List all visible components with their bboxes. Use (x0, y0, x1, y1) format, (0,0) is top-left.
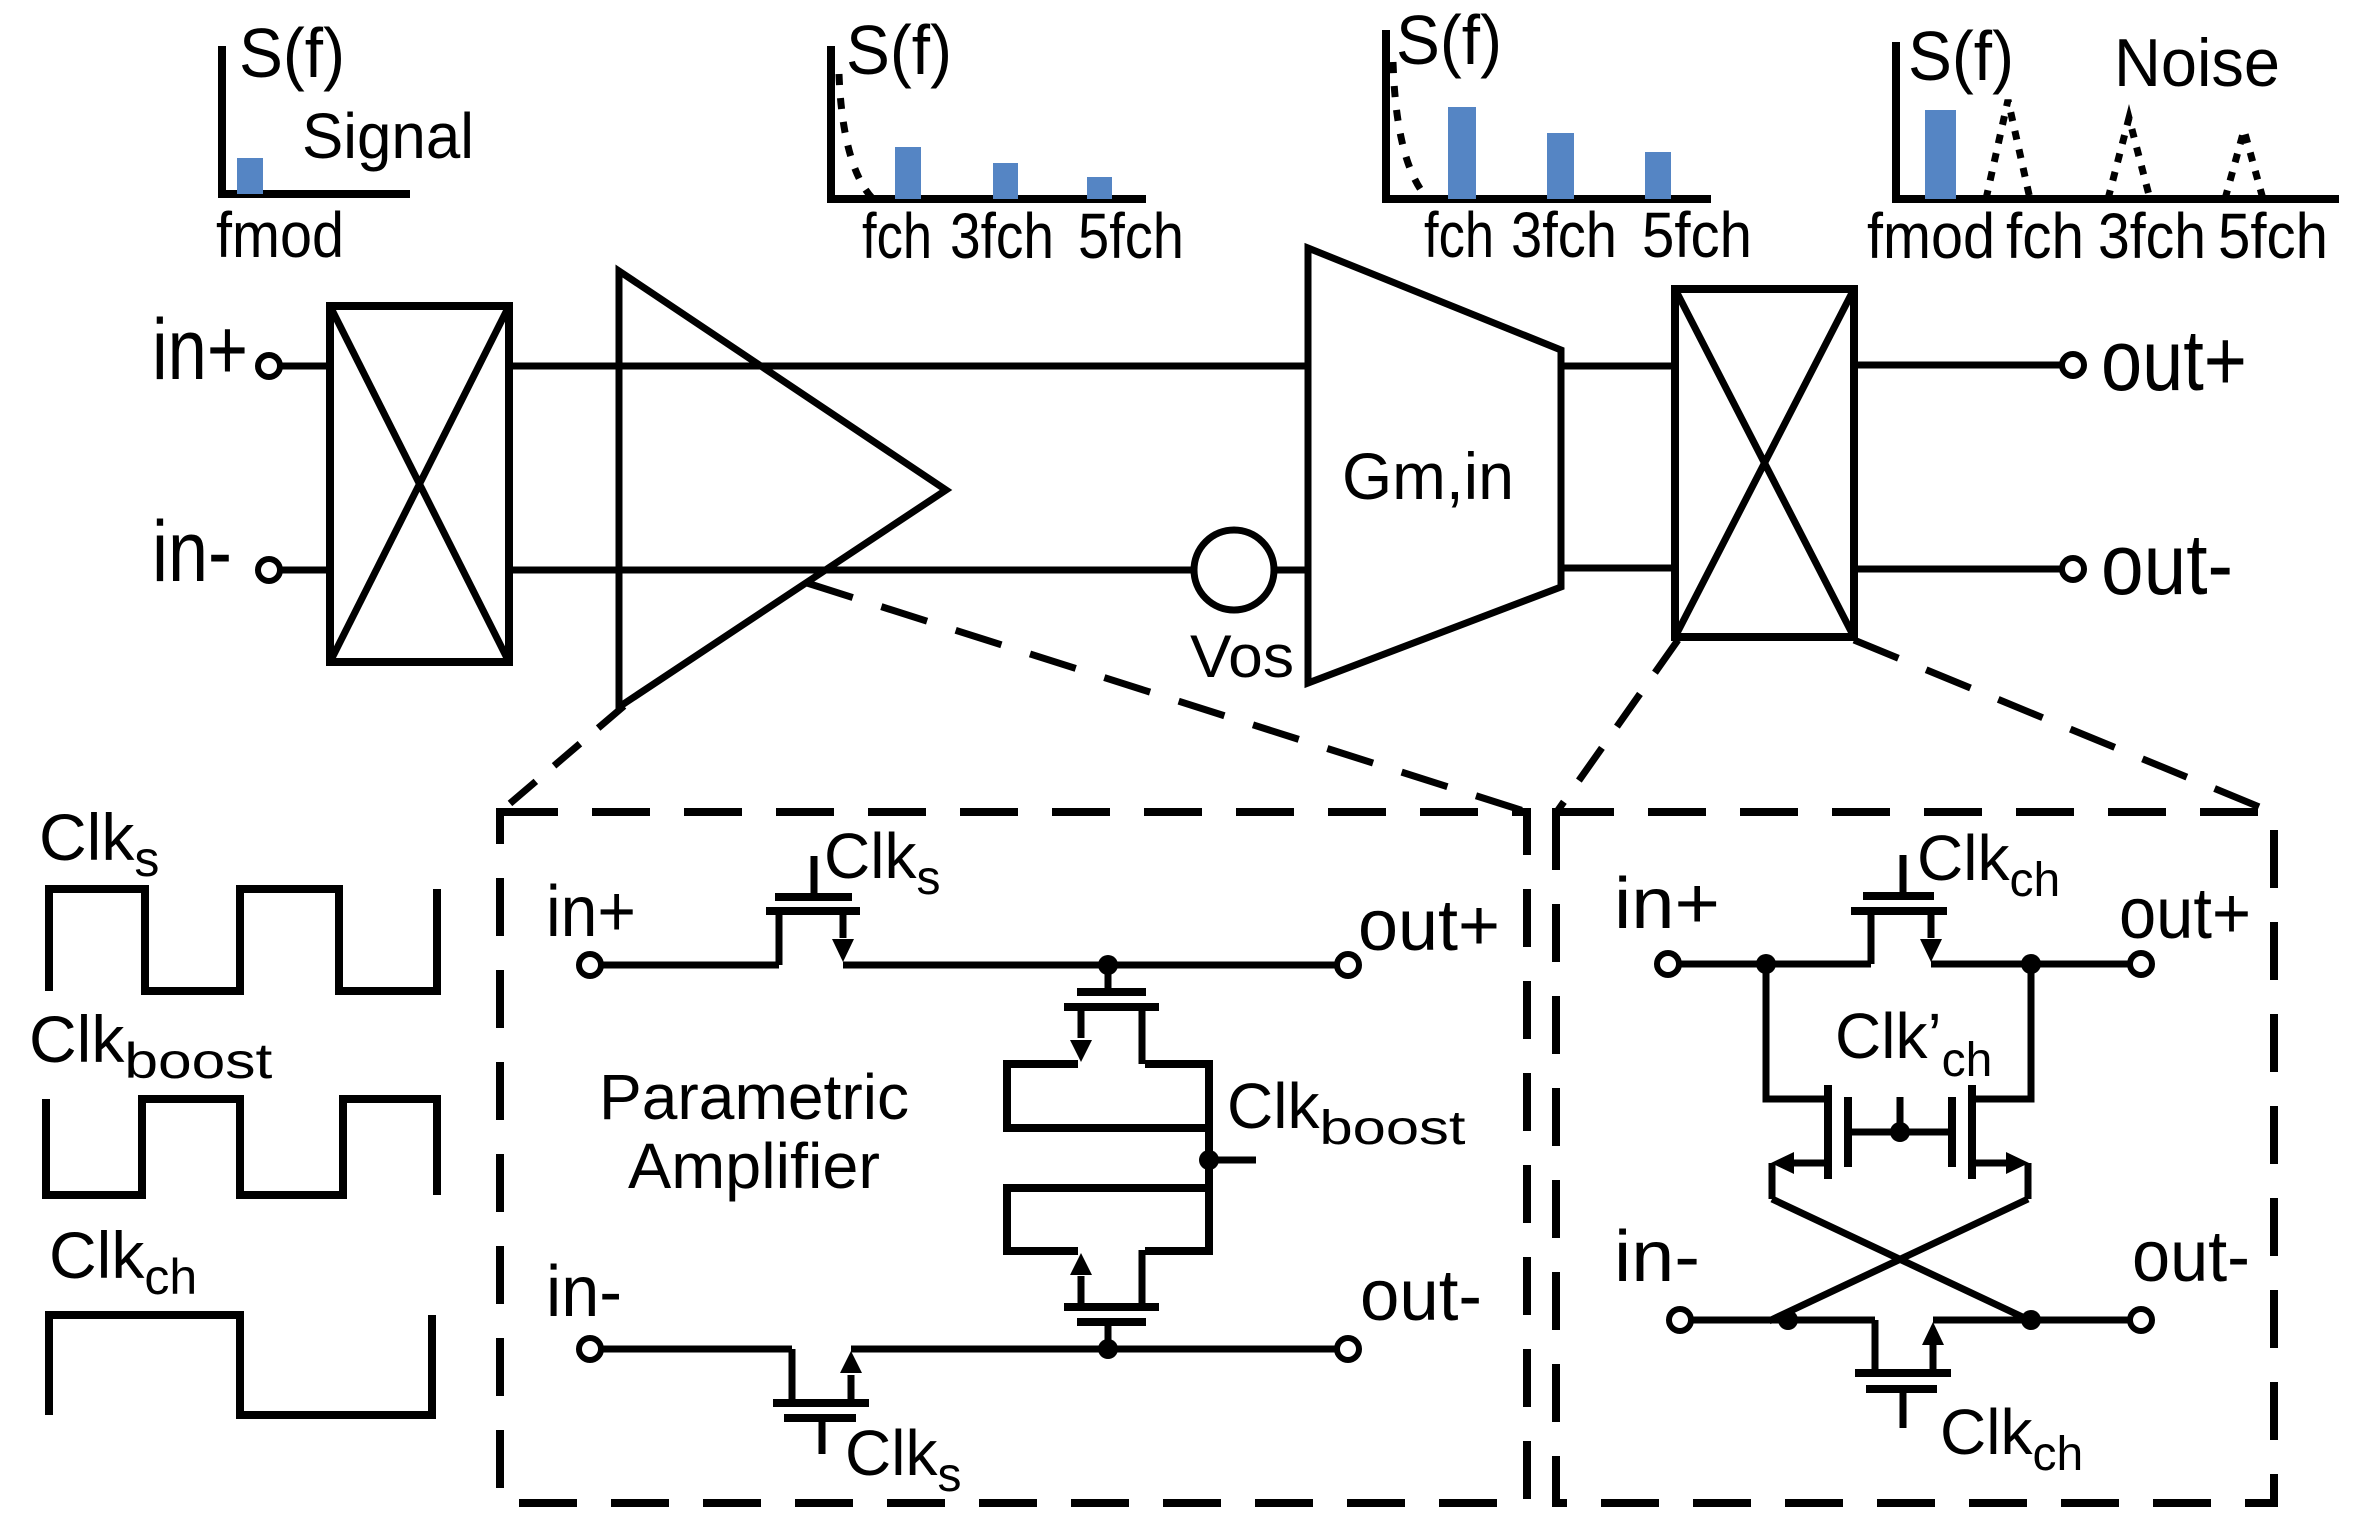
chopper detail dashed box (1556, 812, 2274, 1503)
switch M2 drain stub (848, 1375, 855, 1403)
wire bottom rail Gm to chopper2 (1561, 565, 1675, 572)
dashed leader chopper2 to chopper box left (1556, 640, 1678, 813)
svg-text:out-: out- (2132, 1217, 2250, 1297)
chopper CH2 X diagonal 1 (1675, 289, 1854, 637)
wire in- to switch M2 (601, 1346, 792, 1353)
switch M3 channel bar (1851, 907, 1947, 915)
svg-text:fch: fch (862, 200, 932, 272)
svg-text:in-: in- (546, 1252, 622, 1332)
svg-text:3fch: 3fch (950, 200, 1054, 272)
clock waveform Clkch (49, 1315, 432, 1415)
wire M1 to out+ (parametric box) (843, 962, 1337, 969)
terminal out- (chopper box) (2130, 1309, 2152, 1331)
terminal out+ (chopper box) (2130, 953, 2152, 975)
svg-text:3fch: 3fch (2098, 200, 2206, 272)
wire M2 to out- (parametric box) (851, 1346, 1337, 1353)
cross switch M4 source arrow (1771, 1152, 1794, 1174)
switch M1 drain arrow (832, 939, 854, 962)
amplifier A1 triangle (619, 271, 946, 707)
switch M6 gate lead (1900, 1391, 1907, 1428)
svg-text:Vos: Vos (1190, 623, 1294, 690)
junction dot out- branch (2021, 1310, 2041, 1330)
switch M1 channel bar (766, 907, 860, 915)
dashed leader chopper2 to chopper box right (1854, 640, 2274, 813)
chopper CH1 X diagonal 1 (330, 306, 509, 662)
svg-text:Parametric: Parametric (599, 1061, 909, 1133)
svg-text:fch: fch (1424, 199, 1494, 271)
shared gate node dot (1890, 1122, 1910, 1142)
junction dot bottom (parametric box) (1098, 1339, 1118, 1359)
varactor V1 gate bar (1077, 988, 1146, 996)
cross switch M5 channel bar (1968, 1085, 1976, 1179)
varactor V1 left stub arrow (1070, 1040, 1092, 1062)
spectrum plot 4 dashed noise peak at fch (1986, 100, 2030, 199)
junction dot in+ branch (1756, 954, 1776, 974)
switch M2 gate bar (784, 1414, 856, 1422)
svg-text:in-: in- (152, 504, 232, 600)
svg-text:out+: out+ (1358, 886, 1500, 966)
junction dot in- branch (1778, 1310, 1798, 1330)
spectrum plot 3 bar at fch (1448, 107, 1476, 199)
spectrum plot 2 axes (831, 46, 1146, 199)
terminal out+ (2062, 354, 2084, 376)
switch M1 drain stub (840, 911, 847, 938)
wire in+ to switch M3 (1679, 961, 1871, 968)
switch M6 drain stub (1930, 1343, 1937, 1373)
spectrum plot 2 bar at fch (895, 147, 921, 199)
switch M6 channel bar (1855, 1369, 1951, 1377)
varactor V2 channel bar (1064, 1303, 1159, 1311)
wire in- to switch M6 (1691, 1317, 1875, 1324)
switch M3 gate lead (1900, 855, 1907, 894)
spectrum plot 3 axes (1386, 30, 1711, 199)
switch M2 source step (789, 1349, 796, 1403)
terminal in+ (chopper box) (1657, 953, 1679, 975)
varactor V1 gate lead from top wire (1105, 965, 1112, 990)
clock waveform Clks (49, 889, 437, 991)
svg-text:3fch: 3fch (1511, 199, 1617, 271)
spectrum plot 3 bar at 3fch (1547, 133, 1574, 199)
wire chopper2 to out+ (1854, 362, 2062, 369)
varactor V2 right stub (1139, 1250, 1146, 1307)
svg-text:in+: in+ (1614, 864, 1720, 944)
cross switch M5 source arrow (2006, 1152, 2029, 1174)
terminal in- (chopper box) (1669, 1309, 1691, 1331)
dashed leader amplifier to parametric box right (807, 583, 1527, 812)
chopper CH2 X diagonal 2 (1675, 289, 1854, 637)
spectrum plot 4 axes (1896, 42, 2339, 199)
switch M3 drain arrow (1920, 939, 1942, 962)
svg-text:fmod: fmod (1867, 200, 1995, 272)
cross switch M4 gate bar (1844, 1097, 1852, 1167)
svg-text:Gm,in: Gm,in (1342, 439, 1514, 513)
cross switch M4 corner down (1769, 1163, 1776, 1199)
junction dot out+ branch (2021, 954, 2041, 974)
svg-text:S(f): S(f) (1908, 17, 2014, 95)
switch M1 source stub (776, 911, 783, 965)
switch M6 drain arrow (1922, 1322, 1944, 1345)
svg-text:out+: out+ (2119, 874, 2251, 954)
shared gate lead Clk'ch (1897, 1097, 1904, 1132)
switch M6 gate bar (1866, 1385, 1937, 1393)
svg-text:in+: in+ (152, 302, 248, 398)
varactor body right connector (1205, 1064, 1213, 1251)
transconductor Gm,in trapezoid (1308, 248, 1561, 683)
spectrum plot 2 dashed decay curve (839, 74, 873, 199)
cross switch M5 corner down (2025, 1163, 2032, 1199)
parametric amplifier dashed box (500, 812, 1527, 1503)
cross switch M5 source stub (1972, 1160, 2008, 1167)
spectrum plot 4 signal bar at fmod (1925, 110, 1956, 199)
svg-text:Noise: Noise (2114, 25, 2280, 101)
Clkboost contact stub (1209, 1157, 1256, 1164)
switch M3 source stub (1868, 911, 1875, 964)
switch M1 gate bar (775, 893, 852, 901)
cross wire M4 to out- junction (1772, 1199, 2031, 1321)
spectrum plot 2 bar at 3fch (993, 163, 1018, 199)
switch M1 gate lead (811, 856, 818, 895)
spectrum plot 3 bar at 5fch (1645, 152, 1671, 199)
spectrum plot 3 dashed decay curve (1393, 62, 1428, 199)
varactor V1 body plate (1007, 1064, 1209, 1128)
terminal in- (258, 559, 280, 581)
chopper CH1 X diagonal 2 (330, 306, 509, 662)
wire in+ branch down (1766, 964, 1828, 1099)
cross switch M5 gate bar (1948, 1097, 1956, 1167)
clock waveform Clkboost (46, 1099, 437, 1195)
svg-text:Amplifier: Amplifier (628, 1130, 880, 1202)
svg-text:5fch: 5fch (1642, 199, 1752, 271)
switch M6 source step (1872, 1320, 1879, 1373)
varactor V2 left stub (1078, 1276, 1085, 1307)
wire bottom rail chopper1 to Gm (512, 567, 1308, 574)
svg-text:out-: out- (2101, 517, 2233, 613)
cross wire M5 to in- junction (1769, 1199, 2028, 1321)
varactor V2 left stub arrow (1070, 1253, 1092, 1275)
switch M3 gate bar (1863, 892, 1934, 900)
offset source Vos circle (1194, 530, 1274, 610)
svg-text:in-: in- (1614, 1217, 1700, 1297)
svg-text:S(f): S(f) (239, 14, 345, 92)
switch M3 drain stub (1928, 911, 1935, 938)
svg-text:S(f): S(f) (846, 11, 952, 89)
terminal in+ (258, 355, 280, 377)
wire in- to chopper (280, 567, 329, 574)
varactor V2 body plate (1007, 1188, 1209, 1251)
svg-text:out-: out- (1360, 1256, 1482, 1336)
terminal in- (parametric box) (579, 1338, 601, 1360)
svg-text:S(f): S(f) (1396, 1, 1502, 79)
wire M3 to out+ (chopper box) (1931, 961, 2130, 968)
switch M2 gate lead (819, 1420, 826, 1454)
svg-text:fch: fch (2006, 200, 2084, 272)
Clkboost contact dot (1199, 1150, 1219, 1170)
chopper CH1 box (330, 306, 509, 662)
wire out+ branch down (1972, 964, 2031, 1099)
wire M6 to out- (chopper box) (1933, 1317, 2130, 1324)
spectrum plot 4 dashed noise peak at 5fch (2225, 130, 2263, 199)
terminal in+ (parametric box) (579, 954, 601, 976)
cross switch M4 channel bar (1824, 1085, 1832, 1179)
spectrum plot 1 axes (222, 46, 410, 194)
svg-text:5fch: 5fch (2218, 200, 2328, 272)
terminal out+ (parametric box) (1337, 954, 1359, 976)
terminal out- (parametric box) (1337, 1338, 1359, 1360)
spectrum plot 4 dashed noise peak at 3fch (2108, 118, 2150, 199)
svg-text:fmod: fmod (216, 199, 344, 271)
svg-text:Signal: Signal (302, 100, 474, 172)
wire top rail chopper1 to Gm (512, 363, 1308, 370)
terminal out- (2062, 558, 2084, 580)
svg-text:in+: in+ (546, 872, 636, 952)
svg-text:5fch: 5fch (1078, 200, 1184, 272)
varactor V2 gate lead to bottom wire (1105, 1324, 1112, 1349)
dashed leader amplifier to parametric box left (500, 706, 624, 812)
wire in+ to switch M1 (601, 962, 779, 969)
junction dot top (parametric box) (1098, 955, 1118, 975)
varactor V2 gate bar (1077, 1318, 1146, 1326)
spectrum plot 2 bar at 5fch (1087, 177, 1112, 199)
wire in+ to chopper (280, 363, 329, 370)
wire chopper2 to out- (1854, 566, 2062, 573)
shared gate connect bar (1848, 1129, 1952, 1136)
varactor V1 channel bar (1064, 1003, 1159, 1011)
spectrum plot 1 signal bar at fmod (237, 158, 263, 194)
switch M2 drain arrow (840, 1351, 862, 1373)
switch M2 channel bar (773, 1399, 869, 1407)
cross switch M4 source stub (1792, 1160, 1828, 1167)
svg-text:out+: out+ (2101, 313, 2247, 409)
varactor V1 right stub (1139, 1007, 1146, 1064)
varactor V1 left stub (1078, 1007, 1085, 1038)
wire top rail Gm to chopper2 (1561, 363, 1675, 370)
chopper CH2 box (1675, 289, 1854, 637)
